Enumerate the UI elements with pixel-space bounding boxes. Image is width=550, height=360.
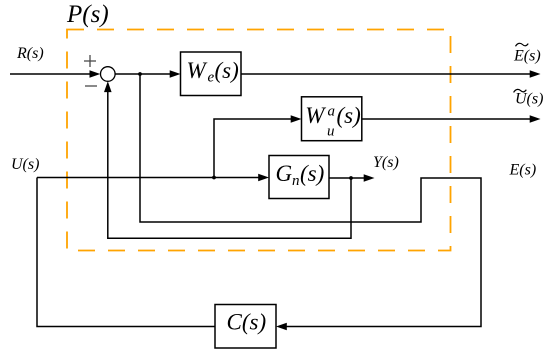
svg-text:Y(s): Y(s) — [373, 154, 399, 171]
wire feedback Y to summing junction minus — [104, 81, 351, 238]
label E~(s) with wide tilde — [513, 43, 541, 64]
svg-text:P(s): P(s) — [66, 1, 109, 28]
svg-text:(s): (s) — [215, 58, 239, 83]
minus sign — [85, 85, 97, 87]
plant boundary P(s) dashed box — [67, 30, 451, 251]
plus sign — [84, 55, 96, 67]
svg-text:u: u — [327, 124, 335, 140]
svg-text:a: a — [328, 104, 336, 120]
wire branch from U wire up into Wua — [214, 115, 302, 177]
svg-text:U(s): U(s) — [515, 91, 543, 108]
label U~(s) with wide tilde — [514, 89, 544, 107]
wire Gn output Y(s) — [329, 174, 375, 182]
svg-text:G: G — [276, 161, 293, 186]
node junction dot after summing — [138, 72, 142, 76]
wire error E(s) to controller C — [140, 74, 481, 330]
svg-text:E(s): E(s) — [513, 48, 541, 65]
summing junction — [101, 67, 116, 82]
block Gn — [269, 156, 329, 199]
block C — [215, 305, 276, 349]
svg-text:U(s): U(s) — [11, 156, 39, 173]
svg-text:R(s): R(s) — [16, 45, 44, 62]
label P(s) — [66, 1, 109, 28]
wire U(s) into Gn — [37, 174, 269, 182]
block We — [181, 52, 242, 96]
wire R(s) input into summing junction — [10, 70, 100, 78]
svg-text:E(s): E(s) — [509, 162, 537, 179]
svg-text:(s): (s) — [337, 103, 361, 128]
svg-text:C(s): C(s) — [227, 309, 267, 334]
block Wua — [302, 97, 362, 141]
label E(s) — [509, 162, 537, 179]
label R(s) — [16, 45, 44, 62]
wire C output to U node — [37, 178, 215, 327]
label Y(s) — [373, 154, 399, 171]
wire We output to E~(s) — [241, 70, 541, 78]
svg-text:e: e — [208, 69, 215, 85]
svg-text:n: n — [292, 173, 300, 189]
wire Wua output to U~(s) — [362, 115, 541, 123]
svg-text:W: W — [305, 103, 326, 128]
node junction dot on U wire — [212, 176, 216, 180]
wire summing junction to We — [115, 70, 180, 78]
label U(s) — [11, 156, 39, 173]
svg-text:(s): (s) — [300, 161, 324, 186]
svg-text:W: W — [187, 58, 208, 83]
node junction dot on Y wire — [349, 176, 353, 180]
